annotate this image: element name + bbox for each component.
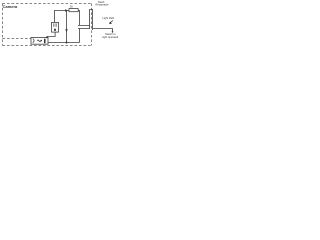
svg-text:Light Path: Light Path [103,16,115,20]
svg-text:56: 56 [70,5,73,8]
svg-text:Receptacle: Receptacle [96,3,110,7]
svg-text:light operated: light operated [103,35,119,39]
svg-text:Camera: Camera [3,4,18,9]
